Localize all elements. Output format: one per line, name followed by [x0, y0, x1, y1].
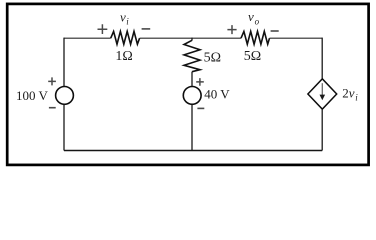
- wire right branch lower: [321, 109, 323, 150]
- wire right branch upper: [321, 38, 323, 79]
- wire middle branch lower: [191, 104, 193, 150]
- svg-text:v: v: [248, 9, 254, 24]
- wire middle branch between R3 and V2: [191, 72, 193, 87]
- dependent current source diamond: [308, 79, 337, 109]
- border frame: [7, 4, 368, 165]
- wire bottom rail: [64, 150, 322, 152]
- label plus of V1: [48, 77, 56, 85]
- svg-text:100 V: 100 V: [16, 88, 49, 103]
- wire middle branch stub: [191, 38, 193, 41]
- wire left branch lower: [63, 104, 65, 150]
- label minus of vi: [142, 28, 151, 30]
- label plus of V2: [196, 78, 204, 86]
- label minus of vo: [271, 30, 279, 32]
- svg-text:o: o: [255, 17, 260, 27]
- resistor R2 5ohm zigzag: [241, 31, 270, 44]
- label plus of vi: [98, 24, 108, 34]
- svg-text:i: i: [126, 17, 129, 27]
- wire top rail middle segment: [140, 37, 241, 39]
- voltage source V2 40V circle: [183, 87, 201, 105]
- wire top rail right segment: [270, 37, 323, 39]
- resistor R1 1ohm zigzag: [111, 31, 140, 44]
- svg-text:5Ω: 5Ω: [204, 51, 221, 66]
- voltage source V1 100V circle: [56, 87, 74, 105]
- svg-text:40 V: 40 V: [204, 87, 230, 102]
- label minus of V1: [49, 107, 56, 109]
- svg-text:2v: 2v: [342, 85, 355, 100]
- dependent source arrow head: [320, 95, 326, 101]
- svg-text:v: v: [120, 10, 126, 25]
- resistor R3 5ohm vertical zigzag: [184, 40, 200, 71]
- wire top rail left segment: [64, 37, 111, 39]
- svg-text:i: i: [355, 92, 358, 102]
- wire left branch upper: [63, 38, 65, 87]
- svg-text:5Ω: 5Ω: [244, 49, 261, 64]
- label minus of V2: [197, 107, 204, 109]
- label plus of vo: [227, 25, 236, 34]
- svg-text:1Ω: 1Ω: [115, 49, 132, 64]
- dependent source arrow shaft: [321, 83, 323, 97]
